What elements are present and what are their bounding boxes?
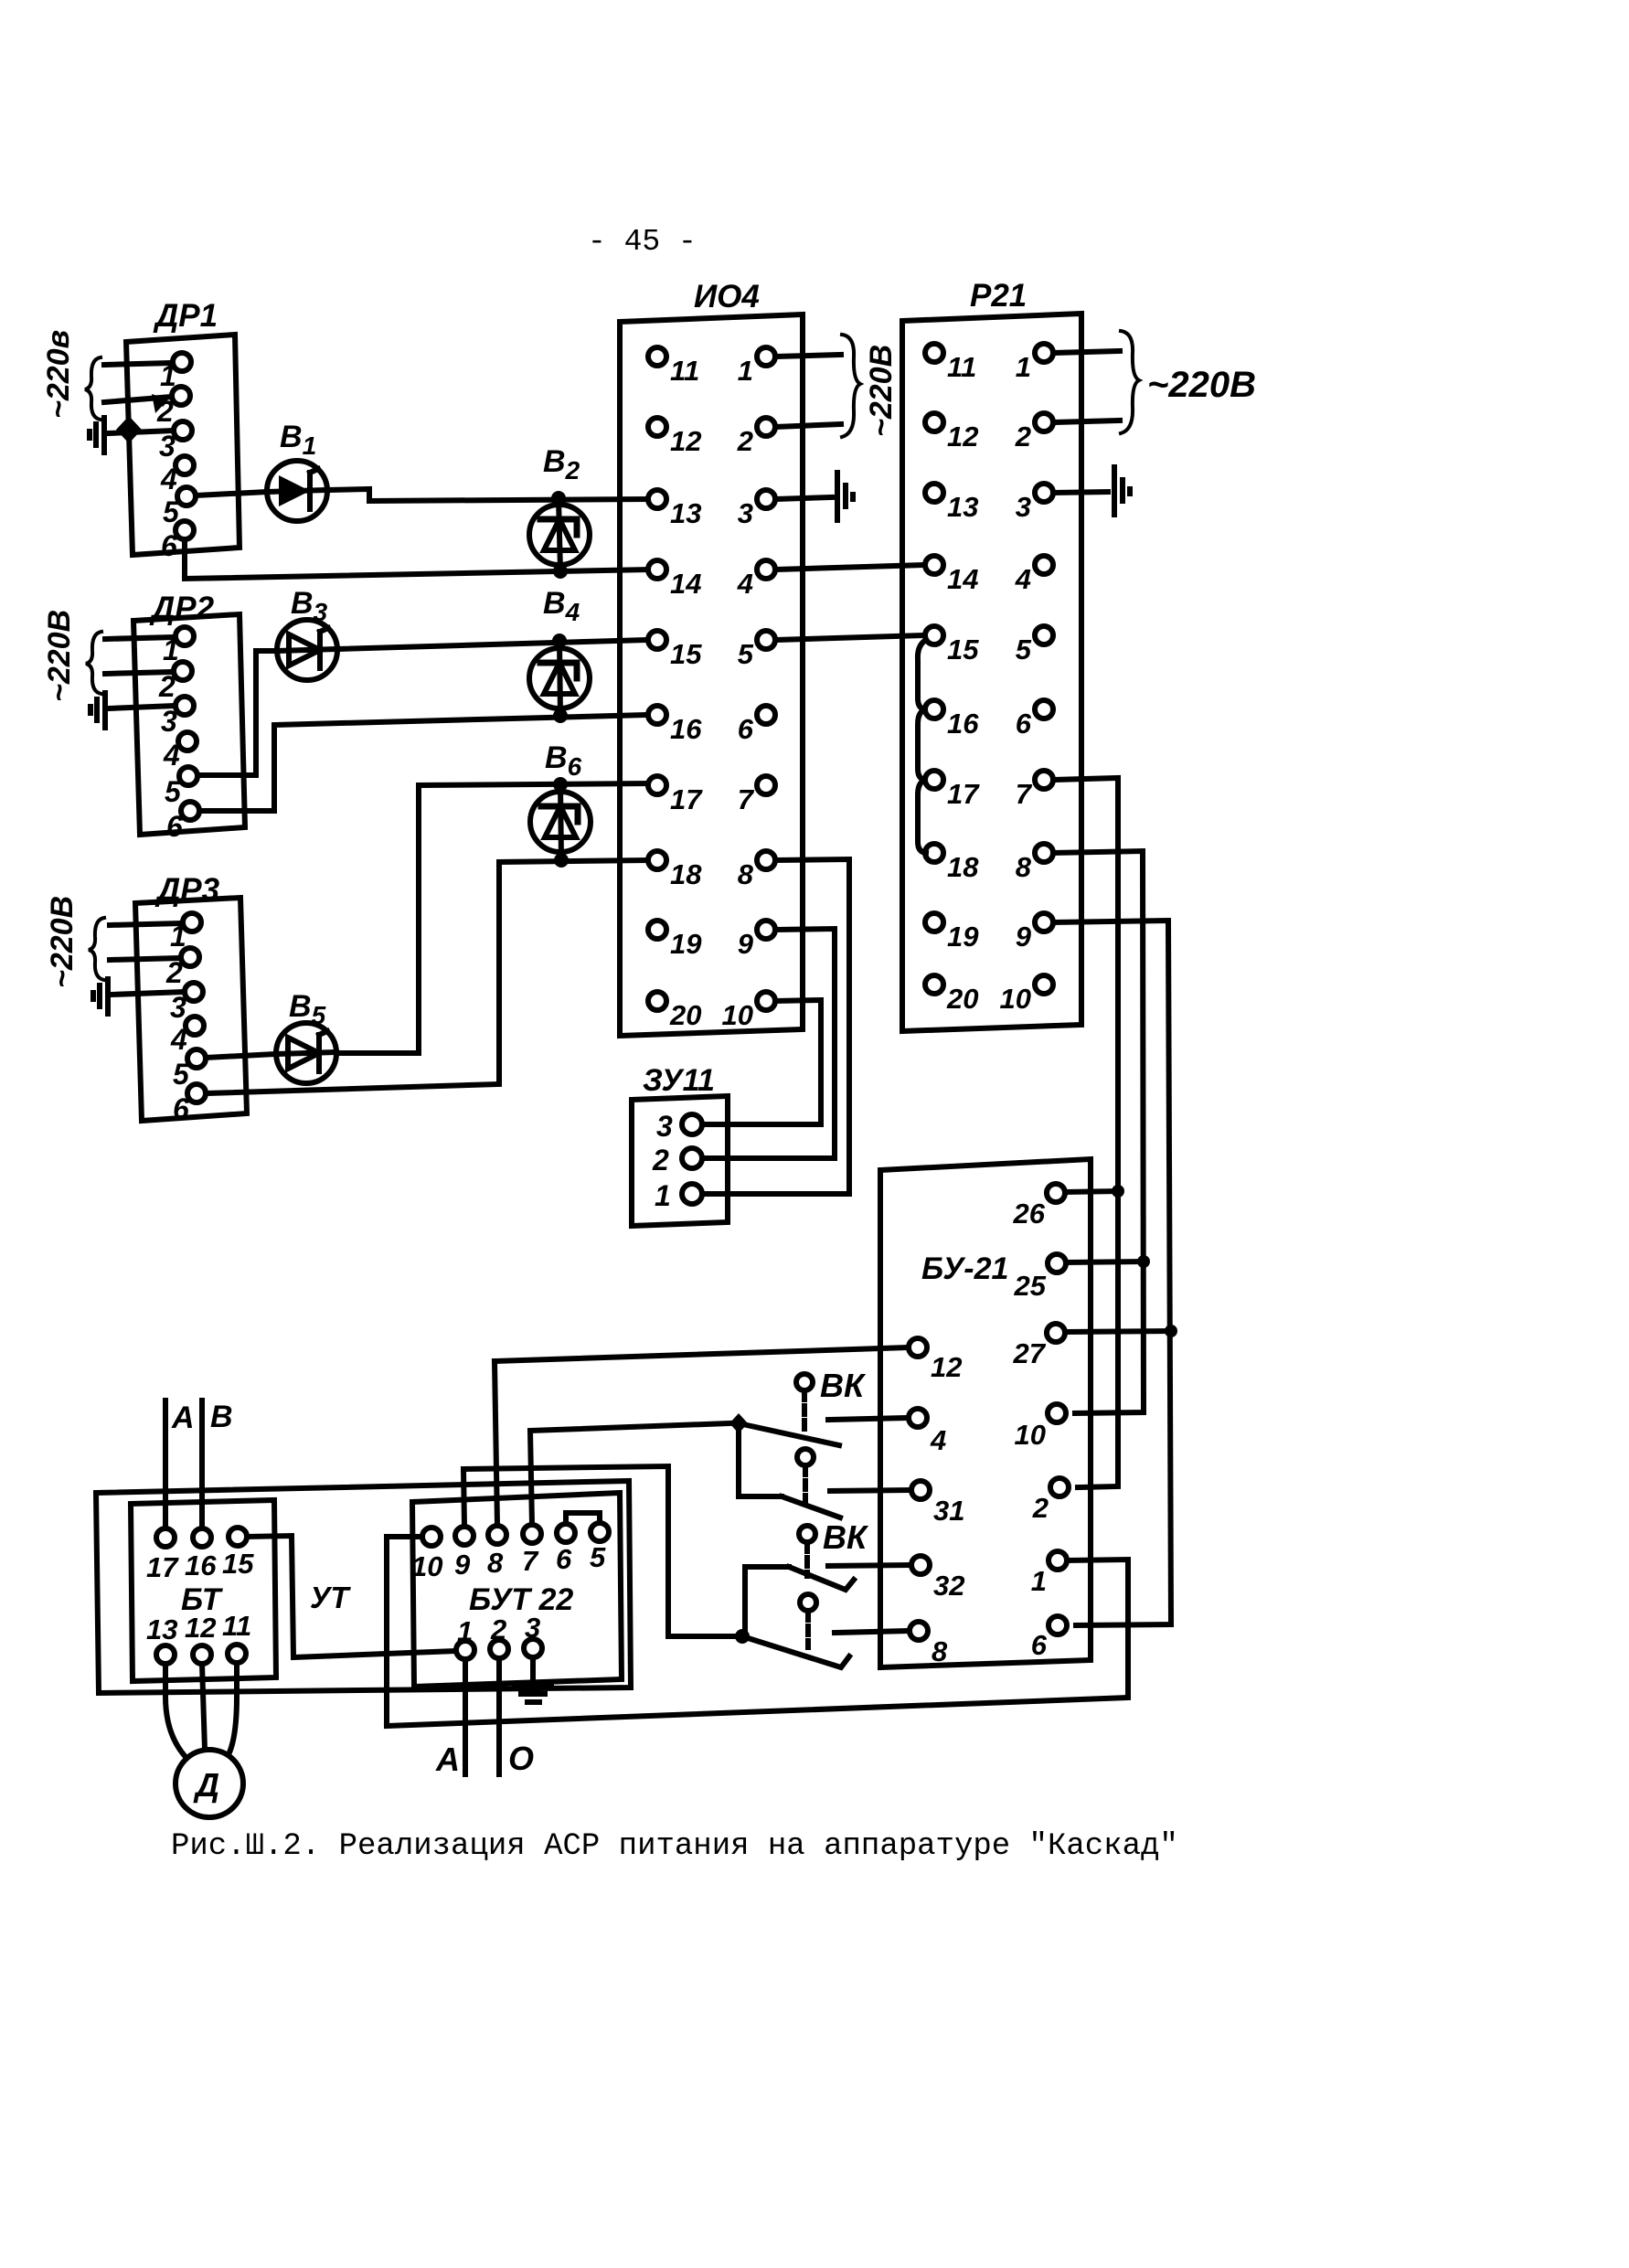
svg-text:УТ: УТ [310,1581,351,1614]
DR2 pin 3 [161,697,194,738]
DR3 pin 5 [173,1049,206,1091]
svg-text:32: 32 [933,1570,964,1602]
svg-text:7: 7 [1016,778,1033,810]
svg-text:6: 6 [1016,708,1032,740]
wire R21 pin7 down to BU21 pin2 (bus A) [1053,778,1118,1487]
IO4 pin 4 [737,560,775,600]
svg-text:19: 19 [670,928,702,960]
svg-text:3: 3 [656,1110,673,1143]
BT pin 11 [222,1610,251,1663]
junction dot B2 bottom [553,564,568,579]
R21 pin 1 [1016,344,1053,383]
wire diode B3 to IO4 pin15 [337,640,648,649]
connector DR1 box [126,335,240,555]
ground symbol R21 pin3 [1114,467,1130,515]
jumper bridge BUT pins 6-5 [566,1513,600,1524]
IO4 pin 18 [648,851,702,890]
wire DR3 pin2 to ~220V [110,958,181,960]
svg-text:9: 9 [1016,921,1032,953]
svg-text:11: 11 [222,1610,251,1642]
BU21 pin 1r [1031,1551,1067,1597]
BT pin 12 [185,1612,216,1664]
wire DR1 pin6 down and to IO4 pin14 [185,539,648,579]
wire DR3 pin1 to ~220V [110,923,183,925]
wire IO4 pin9 to ZU11 pin2 [704,929,835,1158]
svg-text:12: 12 [947,421,978,453]
DR3 pin 3 [170,983,203,1024]
DR1 pin 5 [163,487,196,528]
svg-text:3: 3 [170,991,186,1024]
DR2 pin 5 [165,767,197,808]
junction dot B2 top [551,491,566,506]
svg-text:6: 6 [1031,1629,1048,1661]
IO4 pin 19 [648,921,702,960]
wire BUT pin9 up over to VK2 junction [463,1466,735,1636]
svg-text:8: 8 [932,1635,948,1667]
DR2 pin 4 [163,732,197,772]
svg-text:31: 31 [933,1495,964,1527]
svg-text:ИО4: ИО4 [694,279,760,314]
BT pin 17 [146,1528,179,1583]
junction dot B4 bottom [553,708,568,723]
svg-text:А: А [435,1741,460,1778]
ground symbol DR3 [93,979,108,1014]
svg-text:7: 7 [522,1545,539,1577]
svg-text:ВК: ВК [820,1367,867,1404]
svg-text:16: 16 [670,713,702,745]
BU21 pin 26 [1013,1184,1065,1230]
junction arrow blob on DR1 pin2 wire [152,394,168,413]
svg-text:2: 2 [652,1144,669,1177]
wire IO4 pin10 to ZU11 pin3 [704,1000,821,1124]
svg-text:4: 4 [1015,563,1031,595]
svg-text:БУ-21: БУ-21 [921,1251,1008,1286]
wire neutral O out of BUT pin2 [496,1658,502,1774]
wire DR1 pin3 to ground [108,431,174,433]
svg-text:- 45 -: - 45 - [588,225,697,259]
svg-text:~220В: ~220В [864,345,899,437]
svg-text:14: 14 [670,568,701,600]
svg-text:2: 2 [1032,1492,1049,1524]
DR3 pin 1 [170,913,201,953]
svg-text:13: 13 [146,1613,177,1645]
IO4 pin 2 [737,418,775,457]
svg-text:В: В [210,1400,233,1434]
wire IO4 pin2 to ~220V brace [775,424,841,427]
IO4 pin 17 [648,776,703,815]
svg-text:26: 26 [1013,1198,1046,1230]
svg-text:3: 3 [159,430,176,463]
BUT pin 3b [524,1612,542,1657]
svg-text:16: 16 [947,708,979,740]
dashed actuator link VK1b [803,1466,808,1506]
diode B1 [267,461,327,521]
switch VK group 1 actuator circle [796,1374,813,1390]
svg-text:20: 20 [669,999,701,1031]
BUT pin 9 [454,1527,474,1581]
svg-text:6: 6 [173,1092,189,1125]
brace ~220V DR3 [89,918,104,980]
wire UT from BT pin15 to BUT pin1 [247,1536,456,1657]
svg-text:6: 6 [166,810,183,843]
wire R21 pin3 to ground [1053,492,1108,493]
svg-text:12: 12 [185,1612,216,1644]
ZU11 pin 2 [652,1144,702,1177]
wire IO4 pin3 to ground [775,497,832,499]
fixed contact wire BU21 pin4 [828,1418,909,1420]
ground symbol DR2 [90,693,105,728]
switch VK group1 second actuator circle [797,1449,814,1465]
junction dot bus A / pin26 [1112,1185,1124,1198]
wire IO4 pin4 to R21 pin14 [775,565,925,570]
BU21 pin 6r [1031,1616,1067,1661]
svg-text:4: 4 [930,1424,946,1456]
svg-text:ДР3: ДР3 [154,872,220,908]
svg-text:14: 14 [947,563,978,595]
svg-text:3: 3 [1016,491,1031,523]
svg-text:19: 19 [947,921,979,953]
dashed actuator link VK1a [802,1391,807,1430]
DR2 pin 1 [163,627,194,666]
svg-text:1: 1 [738,355,753,387]
svg-text:4: 4 [170,1023,187,1056]
wire DR3 pin5 to diode B5 [206,1054,275,1058]
wire IO4 pin5 to R21 pin15 [775,635,925,640]
svg-text:17: 17 [947,778,980,810]
IO4 pin 20 [648,992,701,1031]
BU21 pin 12 [909,1338,962,1383]
connector DR3 box [135,898,247,1121]
diode B4 with riser between IO4 pin15 and pin16 rows [529,641,590,716]
R21 pin 19 [925,913,979,953]
IO4 pin 13 [648,490,701,529]
R21 pin 10 [1000,975,1053,1015]
junction dot B6 top [553,777,568,792]
wire R21 pin1 to ~220V brace [1053,351,1120,353]
R21 pin 6 [1016,700,1053,740]
switch VK group2 second actuator circle [800,1594,816,1611]
svg-text:18: 18 [947,851,979,883]
wire BU21 pin1r down and left to BUT pin10 run [387,1560,1128,1726]
IO4 pin 5 [738,631,775,670]
svg-text:10: 10 [411,1550,442,1582]
svg-text:Р21: Р21 [970,278,1027,314]
dashed actuator link VK2b [805,1612,811,1647]
R21 pin 20 [925,975,978,1015]
fixed contact wire BU21 pin31 [830,1490,911,1491]
svg-text:3: 3 [525,1612,540,1644]
svg-text:9: 9 [738,928,754,960]
wire BU21 pin25 to bus B [1066,1262,1144,1262]
junction dot B6 bottom [554,853,569,868]
BUT pin 10 [411,1528,442,1582]
IO4 pin 6 [738,706,775,745]
brace ~220V R21 [1121,331,1139,433]
wire DR2 pin6 to IO4 pin16 [199,715,648,811]
svg-text:6: 6 [161,529,177,562]
wire DR2 pin2 to ~220V [105,672,174,674]
svg-text:~220В: ~220В [1147,365,1256,405]
BUT pin 7 [522,1525,541,1577]
R21 pin 5 [1016,626,1053,665]
svg-text:БУТ 22: БУТ 22 [469,1582,573,1617]
jumper bracket R21 pins 15-16-17-18 [918,640,926,853]
R21 pin 18 [925,844,979,883]
svg-text:13: 13 [670,497,701,529]
svg-text:5: 5 [590,1541,606,1573]
svg-text:5: 5 [738,638,754,670]
svg-text:3: 3 [738,497,753,529]
DR2 pin 6 [166,802,199,843]
IO4 pin 14 [648,560,701,600]
R21 pin 2 [1015,413,1053,453]
wire DR1 pin5 to diode B1 [196,492,267,495]
R21 pin 4 [1015,556,1053,595]
svg-text:1: 1 [1031,1565,1047,1597]
switch VK group 2 actuator circle [799,1526,815,1542]
BUT pin 2b [490,1613,508,1658]
wire BU21 pin26 to bus A [1065,1191,1118,1192]
R21 pin 16 [925,700,979,740]
BT pin 15 [222,1528,254,1580]
BUT pin 1b [456,1615,474,1659]
R21 pin 11 [925,344,976,383]
svg-text:2: 2 [165,956,183,989]
svg-text:15: 15 [222,1548,254,1580]
wire DR3 pin6 to IO4 pin18 via riser [206,860,648,1093]
IO4 pin 10 [722,992,775,1031]
wire phase B into BT pin16 [199,1400,205,1528]
wire DR2 pin3 to ground [109,706,176,708]
IO4 pin 15 [648,631,702,670]
DR1 pin 3 [159,421,192,463]
brace ~220V IO4 [842,335,860,437]
DR2 pin 2 [158,662,192,703]
svg-text:15: 15 [947,634,979,665]
DR3 pin 6 [173,1084,206,1125]
junction dot bus C / pin27 [1165,1325,1177,1337]
motor D leads from BT pins 13 12 11 [165,1663,237,1758]
svg-text:8: 8 [1016,851,1032,883]
switch blade to BU21 pin31 [782,1496,840,1517]
BU21 pin 10r [1015,1404,1066,1451]
svg-text:3: 3 [161,705,177,738]
wire DR2 pin5 to diode B3 [197,651,277,775]
svg-text:ДР1: ДР1 [153,298,218,334]
svg-text:О: О [508,1740,534,1777]
svg-text:10: 10 [722,999,753,1031]
IO4 pin 8 [738,851,775,890]
svg-text:ВК: ВК [823,1518,869,1556]
wire BUT pin10 left and down [387,1537,422,1726]
svg-text:2: 2 [737,425,753,457]
BUT pin 6t [556,1524,575,1575]
DR1 pin 6 [161,521,194,562]
svg-text:10: 10 [1015,1419,1046,1451]
wire BUT pin8 up to BU21 pin12 run [495,1361,497,1526]
ground symbol DR1 [90,418,104,453]
svg-text:15: 15 [670,638,702,670]
switch blade to BU21 pin4 [739,1423,839,1445]
wire diode B5 up to IO4 pin17 [337,783,648,1053]
wire DR1 pin2 to ~220V [104,397,172,402]
svg-text:~220В: ~220В [42,610,77,702]
svg-text:5: 5 [1016,634,1032,665]
svg-text:ДР2: ДР2 [149,591,215,626]
junction dot bus B / pin25 [1137,1255,1150,1268]
connector DR2 box [133,614,245,835]
svg-text:17: 17 [146,1551,179,1583]
block BU-21 box [880,1159,1091,1667]
wire R21 pin8 down to BU21 pin10 (bus B) [1053,851,1144,1413]
junction blob on DR1 box edge [116,416,142,443]
svg-text:Рис.Ш.2. Реализация АСР питани: Рис.Ш.2. Реализация АСР питания на аппар… [171,1829,1178,1864]
svg-text:27: 27 [1013,1337,1047,1369]
BUT pin 8t [487,1526,506,1579]
svg-text:11: 11 [947,351,976,383]
junction dot B4 top [552,634,567,648]
ground symbol under BUT pin3 [515,1657,551,1702]
svg-text:12: 12 [670,425,701,457]
R21 pin 7 [1016,771,1053,810]
R21 pin 12 [925,413,978,453]
bracket VK2 riser [745,1567,789,1636]
BU21 pin 25 [1014,1254,1066,1302]
IO4 pin 1 [738,347,775,387]
svg-text:13: 13 [947,491,978,523]
svg-text:6: 6 [738,713,754,745]
svg-text:1: 1 [655,1179,671,1212]
wire DR2 pin1 to ~220V [105,637,176,639]
BU21 pin 8 [910,1622,948,1667]
svg-text:~220В: ~220В [45,896,80,988]
svg-text:5: 5 [165,775,182,808]
DR1 pin 4 [160,456,194,495]
fixed contact wire BU21 pin32 [828,1565,911,1566]
diode B6 with riser between IO4 pin17 and pin18 rows [530,784,591,860]
outer box around BT and BUT [96,1481,631,1693]
BU21 pin 31 [911,1481,964,1527]
svg-text:Д: Д [193,1766,219,1804]
block IO4 box [620,314,803,1036]
switch blade to BU21 pin8 [742,1636,849,1667]
R21 pin 14 [925,556,978,595]
bracket VK1 pivot to blade2 [739,1423,782,1496]
svg-text:8: 8 [487,1547,504,1579]
svg-text:2: 2 [490,1613,506,1645]
R21 pin 15 [925,626,979,665]
IO4 pin 3 [738,490,775,529]
brace ~220V DR1 [85,357,101,420]
dashed actuator link VK2a [804,1543,810,1576]
svg-text:16: 16 [185,1549,217,1581]
svg-text:20: 20 [946,983,978,1015]
svg-text:11: 11 [670,355,699,387]
svg-text:2: 2 [158,670,176,703]
wire IO4 pin8 to ZU11 pin1 [704,859,849,1194]
wire BU21 pin12 to BUT pin8 riser [495,1347,909,1361]
svg-text:25: 25 [1014,1270,1047,1302]
block BT box [131,1500,276,1681]
ZU11 pin 3 [656,1110,702,1143]
diode B2 with riser between IO4 pin13 and pin14 rows [529,498,590,571]
R21 pin 17 [925,771,980,810]
fixed contact wire BU21 pin8 [835,1631,910,1633]
svg-text:А: А [171,1400,195,1435]
BUT pin 5 [590,1523,609,1573]
R21 pin 8 [1016,844,1053,883]
svg-text:18: 18 [670,858,702,890]
svg-text:4: 4 [737,568,753,600]
svg-text:1: 1 [1016,351,1031,383]
IO4 pin 9 [738,921,775,960]
IO4 pin 11 [648,347,699,387]
svg-text:7: 7 [738,783,755,815]
svg-text:12: 12 [931,1351,962,1383]
svg-text:1: 1 [457,1615,473,1647]
wire R21 pin2 to ~220V brace [1053,421,1120,422]
svg-text:17: 17 [670,783,703,815]
wire phase A out of BUT pin1 [463,1659,468,1774]
IO4 pin 12 [648,418,701,457]
wire BU21 pin27 to bus C [1065,1331,1171,1332]
svg-text:4: 4 [163,739,180,772]
wire ZU11 pin3 stub [702,1122,704,1127]
IO4 pin 16 [648,706,702,745]
junction dot VK2 pivot [735,1629,750,1644]
diode B5 [276,1023,336,1083]
R21 pin 9 [1016,913,1053,953]
wire R21 pin9 down to BU21 pin6 (bus C) [1053,921,1171,1625]
svg-text:8: 8 [738,858,754,890]
svg-text:9: 9 [454,1549,471,1581]
BU21 pin 4 [909,1409,946,1456]
DR3 pin 2 [165,948,199,989]
ground symbol IO4 pin3 [837,473,853,520]
BU21 pin 27 [1013,1324,1065,1369]
svg-text:4: 4 [160,463,177,495]
R21 pin 3 [1016,484,1053,523]
block ZU11 box [632,1096,728,1226]
DR1 pin 1 [160,353,191,392]
svg-text:6: 6 [556,1543,572,1575]
svg-text:10: 10 [1000,983,1031,1015]
wire BUT pin7 up over to VK1 junction [530,1423,729,1525]
DR3 pin 4 [170,1017,204,1056]
IO4 pin 7 [738,776,775,815]
svg-text:2: 2 [1015,421,1031,453]
diode B3 [277,620,337,680]
R21 pin 13 [925,484,978,523]
wire DR3 pin3 to ground [112,992,185,995]
BT pin 13 [146,1613,177,1664]
DR1 pin 2 [156,387,190,428]
wire DR1 pin1 to ~220V [104,363,173,365]
junction diamond VK1 pivot [729,1413,748,1433]
brace ~220V DR2 [86,632,101,694]
block R21 box [902,314,1081,1031]
BU21 pin 2r [1032,1478,1069,1524]
ZU11 pin 1 [655,1179,702,1212]
svg-text:~220в: ~220в [41,330,76,419]
svg-text:ЗУ11: ЗУ11 [643,1063,715,1098]
wire phase A into BT pin17 [163,1400,168,1528]
wire IO4 pin1 to ~220V brace [775,355,841,357]
block BUT22 box [412,1493,622,1687]
switch blade to BU21 pin32 [789,1567,854,1590]
motor D [176,1750,243,1817]
BT pin 16 [185,1528,217,1581]
